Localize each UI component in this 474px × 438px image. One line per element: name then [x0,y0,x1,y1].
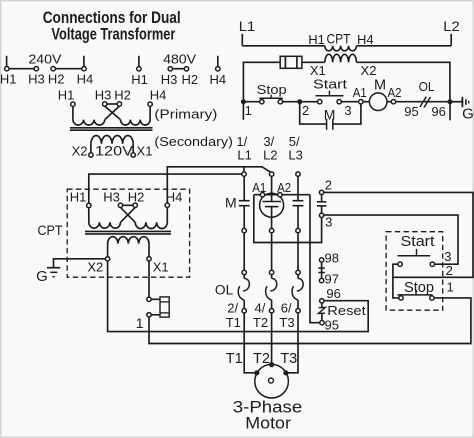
svg-text:H1: H1 [308,32,325,47]
240V jumper H1-H3 [9,68,34,70]
480V terminal H4 [216,67,220,71]
svg-text:H2: H2 [114,88,131,103]
OL heater element T3 [297,278,303,290]
svg-text:CPT: CPT [327,31,351,47]
240V line lead stub H1 [6,56,8,67]
CPT enclosure (dashed) [67,189,189,277]
transformer T1 terminal H2 [117,102,121,106]
wire node1 stub down [242,104,244,120]
svg-text:3: 3 [325,214,332,229]
wire 3 (aux to remote start) [324,215,458,264]
contactor load terminals [242,228,246,232]
transformer T1 terminal H3 [103,102,107,106]
svg-text:L2: L2 [263,147,277,162]
svg-text:1: 1 [245,103,252,118]
fuse terminal bottom (node 1) [147,313,151,317]
CPT terminal X2 [105,257,109,261]
svg-text:L1: L1 [239,19,256,34]
svg-text:2/: 2/ [227,300,238,315]
fuse body [151,298,160,300]
OL reset contact (z) [321,303,323,307]
svg-text:X2: X2 [361,63,377,78]
svg-text:M: M [225,194,237,210]
svg-text:H1: H1 [0,72,17,87]
motor terminal dots [254,370,259,375]
svg-text:Motor: Motor [245,414,291,433]
wire T1 to overload [243,233,245,270]
aux contact terminal 3 [319,213,323,217]
svg-text:(Primary): (Primary) [154,106,217,121]
OL heater element T1 [243,278,249,290]
wire T3 to motor [286,313,298,373]
svg-text:G: G [462,105,474,122]
OL heater input terminal T3 [296,270,300,274]
wire 96-to-X2 return bus [108,261,369,332]
CPT terminal H2 [133,203,137,207]
wire 1 bus (fuse to remote stop) [149,298,471,344]
OL load terminal T3 [296,309,300,313]
node 1 junction [241,99,246,104]
svg-text:H1: H1 [58,88,75,103]
transformer T1 terminal H4 [148,102,152,106]
svg-text:L3: L3 [288,147,302,162]
CPT secondary winding [108,237,149,244]
wire X2 to ground [54,259,106,267]
svg-text:4/: 4/ [254,300,265,315]
terminal 3/L2 [269,172,273,176]
OL aux terminal 97 [319,278,323,282]
svg-text:H1: H1 [70,190,87,205]
transformer T1 terminal X1 [131,153,135,157]
svg-text:1: 1 [446,280,453,295]
svg-text:T1: T1 [226,351,243,367]
svg-text:H4: H4 [357,32,374,47]
240V line lead stub H4 [83,56,85,67]
transformer T1 H3-H2 link [107,103,117,105]
480V line lead stub H1 [138,56,140,67]
wire A2 to OL 95 [310,195,320,323]
svg-text:H1: H1 [131,72,148,87]
svg-text:H3: H3 [103,190,120,205]
svg-text:A1: A1 [353,85,367,100]
wire 2 (aux to remote) [324,192,473,277]
wire start to A1, node 3 [341,101,358,103]
svg-text:X1: X1 [137,144,153,159]
wire stop to node2 [283,101,298,103]
wire secondary row left + drop to node 1 [243,62,280,99]
wire secondary row right + drop to ground junction [357,62,450,101]
ground junction node [448,99,453,104]
svg-text:G: G [36,268,48,285]
svg-text:T3: T3 [279,315,294,330]
svg-text:96: 96 [326,286,340,301]
svg-text:H3: H3 [28,72,45,87]
svg-text:95: 95 [325,317,339,332]
svg-text:M: M [324,106,336,122]
wire L1 stub [241,34,243,46]
CPT primary winding right [135,222,167,228]
wire A1 to coil [363,101,370,103]
svg-text:Start: Start [313,77,347,92]
power line L2 column [271,176,273,201]
CPT crossover X [121,207,136,222]
480V terminal H3 [168,67,172,71]
contactor coil circle [260,193,284,217]
CPT primary lead H1 [88,208,90,223]
fuse FU [280,56,302,68]
transformer CPT primary (ladder) [325,46,357,51]
power line L3 column [297,176,299,200]
svg-text:H4: H4 [209,72,226,87]
wire T2 to overload [271,233,273,270]
svg-text:CPT: CPT [38,223,63,238]
wire node2 to start [302,101,317,103]
wire fuse to secondary [302,61,325,63]
svg-text:H2: H2 [128,190,145,205]
contactor M contact L3 [293,200,304,202]
480V line lead stub H4 [217,56,219,67]
svg-text:H3: H3 [95,88,112,103]
svg-text:2: 2 [446,263,453,278]
transformer T1 secondary winding [91,136,133,144]
remote station enclosure (dashed) [386,232,443,311]
CPT terminal H1 [87,203,91,207]
wire branch node2 down [300,102,327,124]
wire L2 stub [450,34,452,46]
transformer T1 crossover X [105,106,121,120]
svg-text:1: 1 [136,315,144,331]
svg-text:95: 95 [404,104,418,119]
240V terminal H4 [82,67,86,71]
wire H1 to L1 [89,174,242,203]
wire node1 to stop [243,101,259,103]
svg-text:X2: X2 [87,259,103,274]
svg-text:96: 96 [431,104,445,119]
svg-text:L1: L1 [237,147,251,162]
CPT terminal X1 [147,257,151,261]
OL reset terminal 95 [320,321,324,325]
terminal 1/L1 [242,172,246,176]
wire junction stub down [449,104,451,120]
transformer T1 primary lead H4 [149,106,151,119]
terminal 5/L3 [296,172,300,176]
240V terminal H2 [51,67,55,71]
CPT primary winding left [89,222,121,228]
CPT terminal H4 [165,203,169,207]
CPT secondary leads [107,244,109,257]
CPT terminal H3 [118,203,122,207]
transformer T1 terminal X2 [89,153,93,157]
svg-text:X1: X1 [153,259,169,274]
wire top rail right [357,45,452,47]
240V terminal H1 [5,67,9,71]
wire T1 to motor [244,313,257,373]
svg-text:Connections for Dual: Connections for Dual [43,9,181,27]
transformer T1 primary lead H1 [72,106,74,119]
transformer T1 primary winding right [121,120,151,125]
svg-text:H4: H4 [77,72,94,87]
wire stub above 1/L1 [243,167,245,172]
svg-text:X2: X2 [72,144,88,159]
svg-text:M: M [374,78,386,94]
fuse terminal top [147,297,151,301]
wire A1 to aux terminal 3 [254,195,322,243]
svg-text:H3: H3 [161,72,178,87]
wire top rail left [242,45,324,47]
OL load terminal T1 [242,309,246,313]
transformer T1 primary winding left [73,120,105,125]
remote start terminals [398,262,402,266]
svg-text:480V: 480V [163,51,196,66]
svg-text:H2: H2 [48,72,65,87]
svg-text:OL: OL [419,79,435,94]
wire branch up to A1 [333,104,361,124]
motor shaft circle [269,378,274,383]
wire start-stop jog [393,264,399,298]
svg-text:3: 3 [444,249,451,264]
svg-text:120V: 120V [95,144,133,159]
ground G (CPT) [47,267,60,269]
480V terminal H1 [137,67,141,71]
wire T2 to motor [271,313,273,363]
svg-text:T2: T2 [253,315,268,330]
OL heater input terminal T2 [269,270,273,274]
svg-text:T1: T1 [226,315,241,330]
OL load terminal T2 [269,309,273,313]
wire coil to A2 [387,101,391,103]
svg-text:Reset: Reset [327,303,366,318]
aux contact M (NO) [321,195,323,202]
480V terminal H2 [184,67,188,71]
OL aux contact 97-98 [321,262,323,268]
OL heater input terminal T1 [242,270,246,274]
motor circle [255,364,289,398]
wire A2 to OL to junction [396,101,450,103]
wire H4 to L2 [167,167,271,203]
svg-text:Start: Start [401,233,436,250]
svg-text:Voltage Transformer: Voltage Transformer [51,25,175,43]
svg-text:2: 2 [325,178,332,193]
transformer T1 terminal H1 [71,102,75,106]
svg-text:(Secondary): (Secondary) [154,134,233,149]
contactor M contact L1 [239,200,250,202]
CPT H3-H2 link [123,204,133,206]
transformer T1 secondary leads [90,144,92,153]
CPT primary lead H4 [166,207,168,222]
ground G (control) [461,97,463,107]
svg-text:97: 97 [325,272,339,287]
wire T3 to overload [297,233,299,270]
wire junction to ground [450,101,462,103]
svg-text:A2: A2 [388,85,402,100]
svg-text:Stop: Stop [404,279,434,296]
power line L1 column [243,176,245,200]
svg-text:H4: H4 [166,190,183,205]
OL aux terminal 98 [319,258,323,262]
contactor M contact L2 (in coil) [263,201,281,203]
svg-text:H4: H4 [150,88,167,103]
svg-text:6/: 6/ [281,300,292,315]
svg-text:3: 3 [344,103,351,118]
240V terminal H3 [34,67,38,71]
svg-text:98: 98 [325,251,339,266]
CPT core [85,230,171,232]
transformer T1 core [70,127,153,129]
wire A1-A2 top [254,194,310,196]
240V jumper H2-H4 [55,68,81,70]
480V jumper H3-H2 [173,68,185,70]
svg-text:OL: OL [215,282,234,297]
OL heater element T2 [270,278,276,290]
wire X1 down to fuse [148,261,150,297]
svg-text:240V: 240V [28,51,61,66]
svg-text:T3: T3 [280,351,297,367]
node 2 junction [297,99,302,104]
svg-text:L2: L2 [443,19,460,34]
svg-text:H2: H2 [181,72,198,87]
svg-text:2: 2 [302,103,309,118]
transformer CPT secondary (ladder) [325,54,357,62]
remote stop terminals [399,296,403,300]
